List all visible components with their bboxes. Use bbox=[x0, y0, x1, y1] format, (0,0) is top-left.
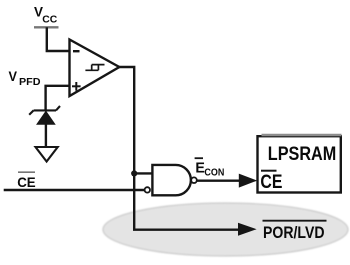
wire junction to NAND top input bbox=[134, 172, 153, 174]
wire NAND output to LPSRAM bbox=[196, 179, 240, 181]
wire VPFD node to comparator non-inverting input bbox=[46, 86, 70, 110]
svg-text:V: V bbox=[9, 68, 18, 84]
arrowhead into LPSRAM CE pin bbox=[239, 174, 257, 188]
VCC power rail tick bbox=[34, 26, 59, 28]
svg-text:CC: CC bbox=[42, 14, 57, 25]
wire junction node bbox=[131, 170, 137, 176]
svg-text:CE: CE bbox=[260, 172, 282, 193]
LPSRAM box U3 bbox=[258, 136, 341, 192]
wire CE input to NAND gate bbox=[4, 189, 145, 191]
op-amp comparator U1 bbox=[70, 40, 120, 97]
node CE input label bbox=[17, 172, 36, 190]
LPSRAM box top shadow bbox=[262, 134, 342, 137]
svg-text:LPSRAM: LPSRAM bbox=[268, 144, 337, 165]
wire zener to ground bbox=[45, 124, 47, 147]
node VCC label bbox=[34, 4, 57, 26]
NAND gate U2 bbox=[145, 165, 197, 195]
svg-text:PFD: PFD bbox=[19, 77, 41, 88]
arrowhead POR/LVD output bbox=[238, 223, 257, 236]
wire comparator output to POR/LVD bbox=[118, 67, 240, 230]
svg-text:POR/LVD: POR/LVD bbox=[263, 223, 325, 242]
node VPFD label bbox=[9, 68, 41, 88]
node ECON label bbox=[195, 158, 225, 178]
pin CE of LPSRAM bbox=[260, 171, 282, 193]
ground bbox=[36, 147, 58, 162]
highlight ellipse bbox=[103, 203, 348, 256]
svg-text:CE: CE bbox=[17, 175, 36, 190]
LPSRAM label bbox=[268, 144, 337, 165]
node POR/LVD label bbox=[263, 221, 327, 242]
svg-text:CON: CON bbox=[204, 168, 224, 179]
wire VCC to comparator inverting input bbox=[47, 27, 70, 51]
zener diode D1 bbox=[29, 106, 60, 124]
